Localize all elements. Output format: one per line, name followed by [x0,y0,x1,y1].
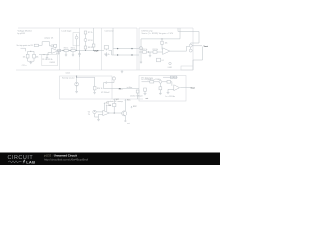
wire VJ to C5 [162,81,167,83]
wire noninverting input [48,53,52,55]
svg-text:Vout: Vout [204,45,209,48]
wire meter stub [113,75,115,78]
resistor R15 inline [150,81,154,83]
wire divider top node [28,51,34,54]
wire left drop [140,39,142,52]
resistor R8 [84,46,87,49]
junction dot rail 4 [85,50,86,51]
svg-text:compar U1: compar U1 [44,37,53,40]
op-amp U3 [174,85,180,91]
junction dot B6 top [76,75,77,76]
wire source top stub [76,34,78,36]
ground G2 [65,52,67,57]
wire VEE stub 2 [106,105,107,112]
wire U1 output to rail [58,50,60,52]
op-amp U1 [52,48,59,53]
resistor R9 [92,44,95,47]
box B2 [60,28,80,70]
terminal node dot [125,120,126,121]
wire U4 output [109,112,121,114]
wire battery left [104,83,106,89]
wire ladder bottom [113,54,139,56]
wire R10 stub [105,49,107,50]
svg-text:R7 2k: R7 2k [88,32,93,34]
svg-text:R14 1k: R14 1k [97,88,103,90]
source V1 [84,39,87,42]
svg-text:R1 10k R2 4k: R1 10k R2 4k [42,59,52,61]
ground G4 [105,52,107,56]
junction dot ladder 2 [131,48,132,49]
svg-text:R11 5k: R11 5k [142,49,147,51]
wire bottom run [39,54,48,56]
Q3 base bar [122,112,124,115]
V2 minus sign [76,84,77,86]
wire noninverting run [168,89,174,92]
svg-text:note1: note1 [66,72,71,75]
junction dot B5 rail [148,51,149,52]
svg-text:OUT: OUT [94,50,99,52]
wire to ladder [109,50,113,55]
junction dot ladder 3 [117,54,118,55]
common bottom border [16,69,193,71]
wire source stub [76,76,78,82]
voltage source V2 [75,82,79,86]
svg-text:V3 700mV: V3 700mV [101,92,110,94]
svg-text:VEE: VEE [108,105,111,107]
Q3 collector [123,100,125,113]
indicator LED1 [169,62,171,64]
logo waveform [8,161,22,163]
component crossing left border of B2 [58,49,61,51]
wire R17 down to rail [137,93,139,99]
svg-text:Load stage: Load stage [62,29,73,32]
wire R16 down [144,91,146,93]
wire between pair [190,47,192,49]
wire R2 stub down [54,47,56,48]
logo bolt [23,160,26,164]
wire U1 feedback stub [57,51,59,55]
junction dot node B [47,54,48,55]
resistor R1 inline on text row [34,44,38,46]
junction dot rail 1 [62,50,63,51]
bottom black bar [0,153,220,166]
ground G13 [167,92,170,94]
svg-text:Sweep source: Sweep source [62,78,76,80]
resistor R5 inline [64,49,68,51]
wire V2 to ground [76,86,78,91]
resistor R4 [33,54,36,58]
resistor R2 [54,44,57,47]
resistor R16 [144,88,147,91]
wire lower rail [139,51,163,53]
capacitor C5 box [167,81,171,84]
resistor R6 inline [71,49,75,51]
resistor R3 [26,54,29,58]
resistor R17 outside box [136,90,139,93]
op-amp U2 [163,48,170,55]
junction dot rail 3 [76,50,77,51]
svg-text:10k: 10k [36,56,39,58]
svg-text:10k: 10k [165,43,168,45]
junction dot top rail [161,38,162,39]
wire reference run left [21,48,26,51]
wire bottom rail [112,98,143,100]
source VJ circle [159,80,162,83]
svg-text:R8 2k: R8 2k [88,47,93,49]
wire ladder top [113,48,139,50]
wire feedback drop [161,39,163,41]
inner frame [73,33,80,46]
wire pair output [192,45,202,47]
svg-text:R6 1k: R6 1k [71,48,76,50]
junction dot ladder 4 [131,54,132,55]
meter M1 [112,77,115,80]
wire U3 output [180,87,190,89]
resistor R12 inline [153,51,157,54]
op-amp U4 [103,110,110,115]
wire U2 output [170,46,189,51]
wire R9 to rail [93,47,95,50]
resistor R16a [159,87,162,90]
svg-text:C2 1u: C2 1u [22,65,27,67]
junction dot ladder 1 [117,48,118,49]
svg-text:IN→: IN→ [119,89,123,91]
wire pair top feed [178,28,199,44]
resistor RB1 [170,76,173,78]
svg-text:fc = 159 Hz: fc = 159 Hz [166,96,176,98]
svg-text:fc = 1/(2piRC) = 159Hz: fc = 1/(2piRC) = 159Hz [142,79,161,81]
junction dot source top [76,77,77,78]
ground G1 [46,55,48,59]
resistor R18 [113,103,116,106]
svg-text:C4: C4 [161,60,163,62]
wire second chain [93,28,95,44]
junction divider top [30,51,31,52]
junction dot rail 5 [93,50,94,51]
inner annotation box in B1 [42,55,58,66]
transistor pair Q2 [189,49,192,52]
wire R13 to inv input [161,44,164,49]
wire main rail [60,49,102,51]
wire left bias drop [140,52,142,62]
ground G6 [75,91,78,93]
svg-text:LED1: LED1 [168,67,172,69]
svg-text:emitter follower: emitter follower [130,95,143,98]
ground G8 below border [121,70,123,73]
resistor R14 [93,87,96,90]
svg-text:10k: 10k [23,56,26,58]
wire R18 to output [113,107,115,114]
wire VJ down [159,83,161,87]
svg-text:R5 1k: R5 1k [64,48,69,50]
box B5 op-amp stage [139,28,193,70]
buzzer BZ1 box [181,66,193,70]
ground G5 [149,52,151,57]
resistor R7 [84,31,87,34]
wire R16a to ground [159,90,161,93]
resistor R10 [104,46,108,49]
transistor Q3 [122,111,127,116]
ground G9 [159,93,162,95]
wire ladder left vertical [112,28,114,55]
svg-text:to filter: to filter [127,86,133,89]
svg-text:Vout: Vout [190,86,195,89]
box B3 [80,28,102,70]
current source I2 [139,47,142,50]
current source I1 [75,36,78,39]
wire V4 to op-amp [96,111,103,113]
wire top bias run [163,76,178,78]
box B4 connector section [102,28,138,70]
svg-text:Vout = (1 + R2/R1) Vin gain =: Vout = (1 + R2/R1) Vin gain = 2 V/V [142,32,174,35]
ground G3 [72,52,74,57]
box B1 top-left annotation [18,28,60,70]
wire top run [42,41,49,43]
svg-text:Set trip point via R1: Set trip point via R1 [17,44,34,47]
wire V4 bottom to ground [95,114,99,117]
wire R7 down [85,34,87,39]
svg-text:Connector: Connector [105,29,115,32]
wire top rail [141,38,180,40]
svg-text:LM393: LM393 [50,62,55,64]
transistor pair Q1 [189,44,192,47]
svg-text:Voltage Monitor: Voltage Monitor [18,29,33,32]
wire riser up [41,42,43,46]
resistor R13 [161,41,163,44]
svg-text:F1: F1 [58,53,60,55]
ground G10 [144,93,147,95]
ground G12 [140,62,142,64]
battery V3 [104,81,107,84]
capacitor C3 hanging [78,50,81,57]
junction dot output [114,113,115,114]
ground G7 [93,92,96,94]
wire from R1 to riser [39,44,43,46]
box B7 filter section [139,76,186,102]
wire filter input run [142,81,160,83]
svg-text:http://circuitlab.com/c/6w46cy: http://circuitlab.com/c/6w46cyd6vuf [44,158,88,162]
wire V1 to R8 [85,42,87,47]
wire VCC stub 1 [104,103,105,111]
Q3 emitter [123,115,125,121]
wire output return [193,47,203,70]
VCC arrow at collector [125,99,126,102]
ground G14 [29,62,32,64]
V2 plus sign [76,83,77,84]
capacitor C4 [157,58,161,62]
wire plus input drop [99,114,103,119]
box B6 source section [60,76,113,99]
diode D1 [51,45,53,47]
annotation boxes [16,28,193,101]
source V4 [93,110,96,113]
resistor RB2 [174,76,177,78]
wire C5 to inverting input [171,82,172,86]
wire R14 down [94,90,96,93]
wire source bottom [76,39,78,50]
V4 plus sign [94,111,95,112]
wire aux stub [131,106,132,108]
ground G11 [97,119,100,121]
junction dot node A [43,54,44,55]
wire diode to resistor [52,45,54,47]
wire R8 to rail [85,49,87,50]
wire divider bottom node [28,58,34,62]
wire to right chain [77,77,95,86]
wire long run to filter [104,88,140,90]
resistor R11 inline [143,51,147,54]
wire rail into ladder [102,49,105,51]
svg-text:LAB: LAB [26,159,35,164]
wire R18 top arrow [114,99,115,104]
svg-text:LM741 amp: LM741 amp [142,30,154,32]
wire drop to diode row [50,42,52,46]
svg-text:by jrt533: by jrt533 [18,32,25,35]
junction dot rail 2 [69,50,70,51]
wire meter down [107,80,114,83]
svg-text:R12 5k: R12 5k [153,49,159,51]
svg-text:out: out [146,97,149,100]
